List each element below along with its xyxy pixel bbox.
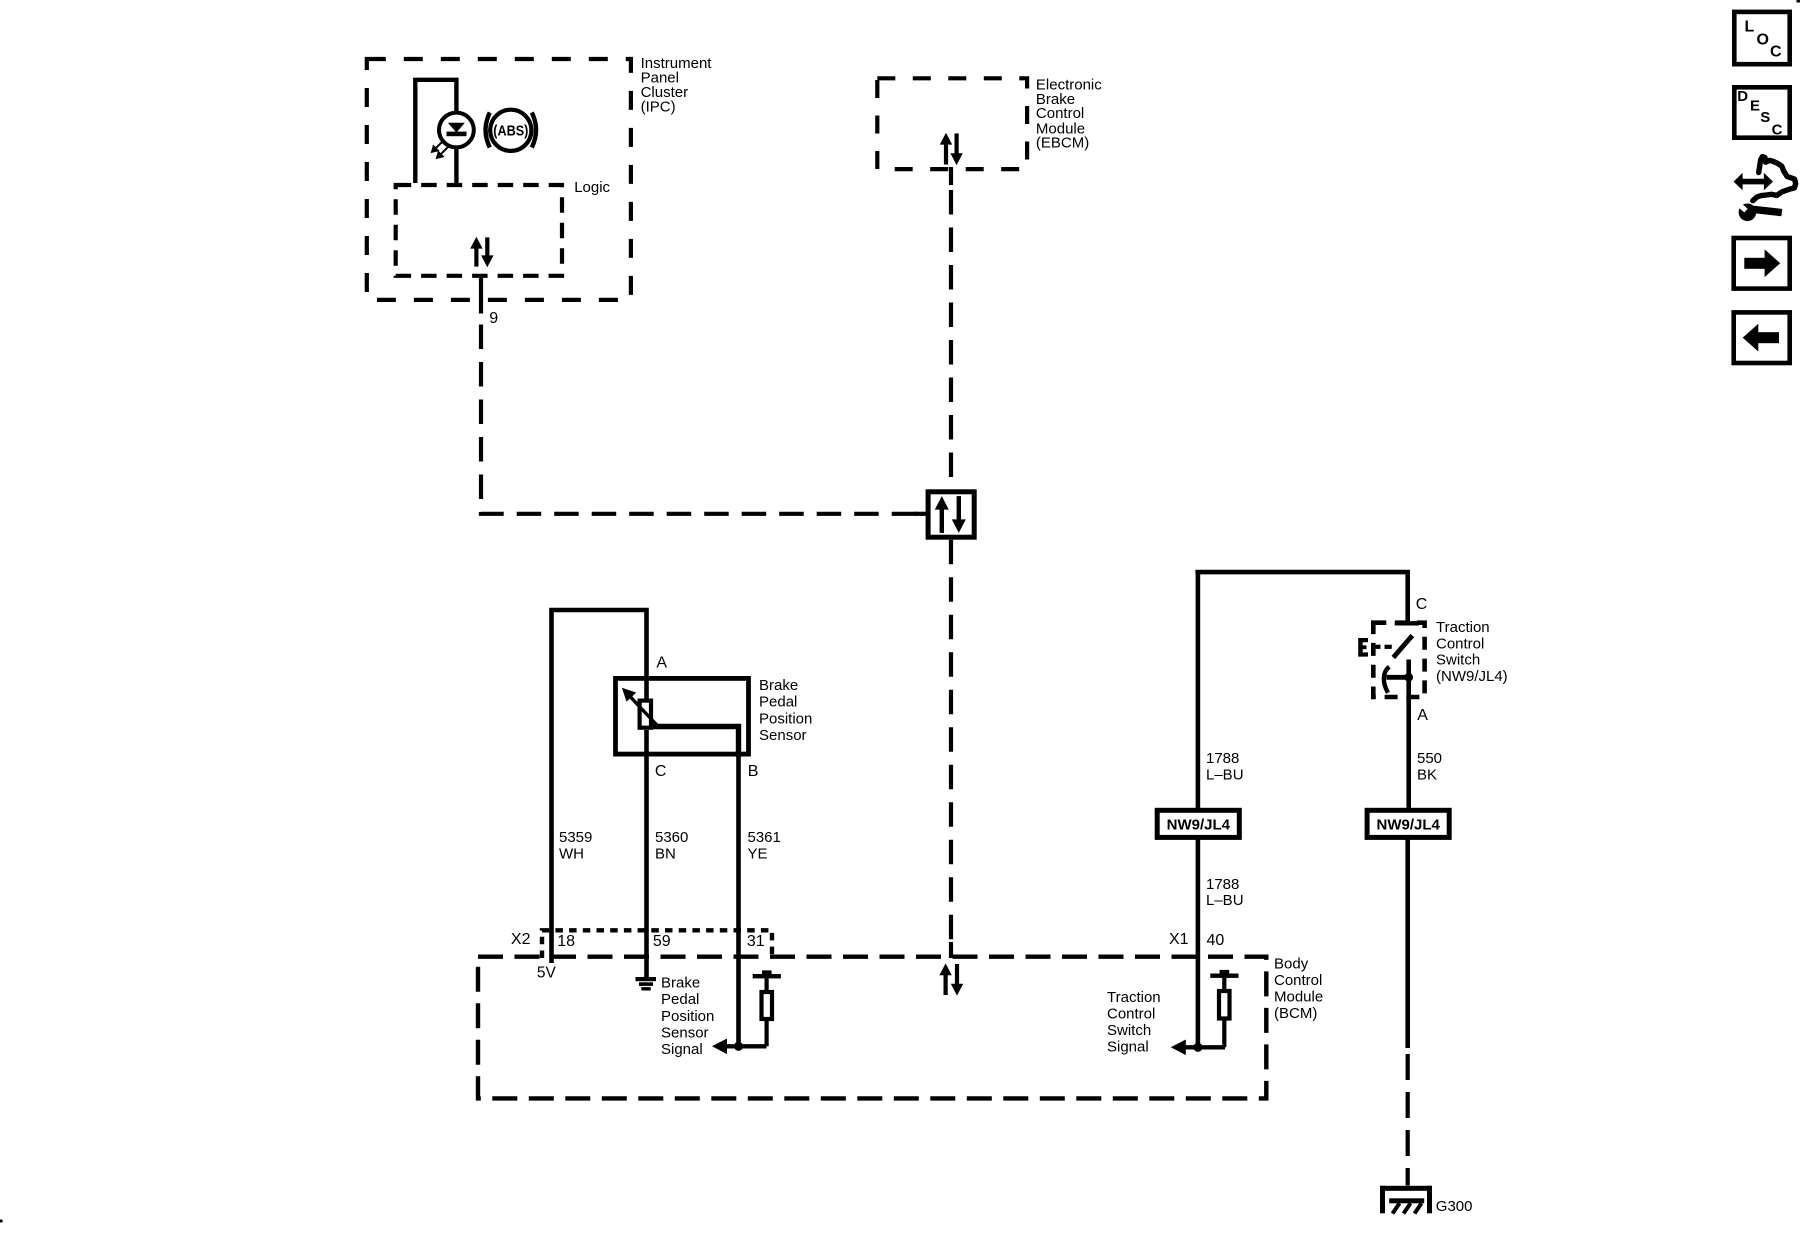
label 5359 WH bbox=[559, 829, 592, 862]
EBCM module box (dashed) bbox=[877, 78, 1027, 169]
svg-text:(EBCM): (EBCM) bbox=[1036, 135, 1089, 152]
svg-text:5360: 5360 bbox=[655, 829, 688, 846]
pull-up resistor (TCS signal) bbox=[1210, 970, 1238, 1047]
svg-text:C: C bbox=[655, 763, 667, 780]
Logic box (dashed) bbox=[396, 185, 562, 276]
svg-text:18: 18 bbox=[557, 933, 575, 950]
label 5360 BN bbox=[655, 829, 688, 862]
BCM serial pin stub bbox=[949, 942, 953, 958]
wire 1788 L-BU below connector bbox=[1196, 837, 1201, 1047]
pull-up resistor (BPP signal) bbox=[753, 970, 781, 1046]
wire 5360 BN: sensor pin C to BCM X2-59 bbox=[644, 730, 649, 977]
sidebar DESC button bbox=[1734, 87, 1789, 138]
LED indicator lamp (ABS warning) bbox=[439, 113, 474, 148]
BCM module box (Body Control Module, dashed) bbox=[478, 957, 1266, 1099]
svg-text:X2: X2 bbox=[511, 931, 531, 948]
wire 550 BK: switch pin A down bbox=[1406, 677, 1411, 808]
wire: serial junction to BCM (dashed) bbox=[949, 540, 953, 942]
svg-text:O: O bbox=[1757, 32, 1769, 49]
switch wiper bar bbox=[1386, 675, 1408, 680]
sidebar LOC button bbox=[1734, 12, 1789, 64]
svg-text:Control: Control bbox=[1274, 972, 1322, 989]
BCM label bbox=[1274, 955, 1323, 1022]
svg-text:A: A bbox=[1417, 707, 1428, 724]
svg-text:E: E bbox=[1750, 98, 1760, 115]
wire: top bus from 1788 L-BU to switch pin C bbox=[1195, 570, 1410, 575]
svg-text:Position: Position bbox=[661, 1008, 714, 1025]
pin 9 stub at IPC boundary bbox=[479, 276, 483, 314]
wire 550 BK: switch pin C drop bbox=[1405, 572, 1410, 623]
label 1788 L-BU (lower) bbox=[1206, 876, 1244, 909]
X2 connector box (dotted) bbox=[542, 930, 772, 958]
EBCM serial-data arrows bbox=[940, 133, 963, 165]
svg-text:Position: Position bbox=[759, 710, 812, 727]
serial data junction box bbox=[928, 492, 974, 537]
EBCM pin stub bbox=[949, 167, 953, 185]
svg-text:C: C bbox=[1772, 122, 1783, 139]
svg-text:Control: Control bbox=[1107, 1006, 1155, 1023]
svg-text:Signal: Signal bbox=[1107, 1039, 1149, 1056]
svg-text:Pedal: Pedal bbox=[759, 694, 797, 711]
ABS telltale symbol ((ABS)) bbox=[486, 110, 537, 151]
BPP sensor signal text bbox=[661, 974, 714, 1058]
label 1788 L-BU (upper) bbox=[1206, 750, 1244, 783]
label 550 BK bbox=[1417, 750, 1442, 783]
wire: IPC pin 9 to serial junction (dashed) bbox=[481, 325, 926, 514]
svg-text:31: 31 bbox=[747, 933, 765, 950]
svg-text:59: 59 bbox=[653, 933, 671, 950]
traction control switch signal text bbox=[1107, 989, 1161, 1055]
IPC label bbox=[641, 55, 713, 116]
potentiometer wiper arrow bbox=[622, 688, 659, 728]
scan speck left margin bbox=[0, 1220, 3, 1223]
svg-text:BK: BK bbox=[1417, 766, 1437, 783]
svg-text:5361: 5361 bbox=[748, 829, 781, 846]
svg-text:550: 550 bbox=[1417, 750, 1442, 767]
svg-text:L–BU: L–BU bbox=[1206, 892, 1244, 909]
wire 550 BK continuation (dashed) bbox=[1406, 1054, 1410, 1186]
TCS signal arrow bbox=[1171, 1040, 1186, 1056]
TCS signal line bbox=[1184, 1045, 1225, 1049]
switch lower contact bbox=[1406, 660, 1411, 678]
svg-text:Module: Module bbox=[1274, 988, 1323, 1005]
svg-text:S: S bbox=[1760, 109, 1770, 126]
svg-text:1788: 1788 bbox=[1206, 750, 1239, 767]
svg-text:Traction: Traction bbox=[1107, 989, 1161, 1006]
junction dot on wire 1788 bbox=[1193, 1043, 1202, 1052]
svg-text:G300: G300 bbox=[1436, 1198, 1473, 1215]
ground G300 bbox=[1380, 1186, 1432, 1214]
svg-text:Sensor: Sensor bbox=[661, 1025, 709, 1042]
wire 5359 WH (5V reference): BCM X2-18 up and over to sensor pin A bbox=[552, 610, 647, 963]
LED light-emission arrows bbox=[432, 141, 448, 158]
svg-text:BN: BN bbox=[655, 845, 676, 862]
ground symbol at BCM pin 59 bbox=[636, 977, 657, 991]
svg-text:Pedal: Pedal bbox=[661, 991, 699, 1008]
svg-text:L: L bbox=[1745, 19, 1755, 36]
scan speck top-right corner bbox=[1797, 0, 1800, 3]
svg-text:Sensor: Sensor bbox=[759, 727, 807, 744]
svg-text:9: 9 bbox=[489, 310, 498, 327]
NW9/JL4 inline connector (left) bbox=[1157, 810, 1239, 837]
label 5361 YE bbox=[748, 829, 781, 862]
wire 550 BK below connector (solid) bbox=[1405, 837, 1410, 1048]
sensor label bbox=[759, 677, 812, 744]
wire 5361 YE: sensor pin B to BCM X2-31 bbox=[736, 757, 741, 1046]
svg-text:5V: 5V bbox=[537, 964, 557, 981]
sidebar previous-page button bbox=[1734, 312, 1790, 363]
IPC module box (Instrument Panel Cluster, dashed) bbox=[367, 59, 631, 300]
svg-text:40: 40 bbox=[1207, 932, 1225, 949]
serial junction arrows bbox=[935, 496, 966, 533]
svg-text:C: C bbox=[1416, 596, 1428, 613]
svg-text:(NW9/JL4): (NW9/JL4) bbox=[1436, 668, 1508, 685]
svg-text:5359: 5359 bbox=[559, 829, 592, 846]
svg-text:L–BU: L–BU bbox=[1206, 766, 1244, 783]
svg-text:(BCM): (BCM) bbox=[1274, 1005, 1317, 1022]
svg-text:C: C bbox=[1770, 44, 1782, 61]
svg-text:NW9/JL4: NW9/JL4 bbox=[1167, 816, 1231, 833]
svg-text:X1: X1 bbox=[1169, 931, 1189, 948]
serial link left stub bbox=[915, 512, 929, 516]
svg-text:Switch: Switch bbox=[1107, 1022, 1151, 1039]
svg-text:A: A bbox=[656, 655, 667, 672]
potentiometer element bbox=[640, 701, 651, 728]
switch pin C contact bar bbox=[1395, 621, 1419, 625]
sidebar wiring-repair icon bbox=[1734, 157, 1796, 222]
wiper output wire to pin B bbox=[651, 727, 739, 758]
logic serial-data arrows bbox=[470, 237, 493, 267]
svg-text:D: D bbox=[1737, 88, 1748, 105]
svg-text:Traction: Traction bbox=[1436, 619, 1490, 636]
brake pedal position sensor box bbox=[616, 678, 749, 754]
svg-text:Control: Control bbox=[1436, 635, 1484, 652]
svg-text:(IPC): (IPC) bbox=[641, 99, 676, 116]
svg-text:Logic: Logic bbox=[574, 179, 610, 196]
wire: ABS lamp feed loop inside IPC bbox=[415, 80, 456, 183]
svg-text:Switch: Switch bbox=[1436, 652, 1480, 669]
svg-text:B: B bbox=[748, 763, 759, 780]
svg-text:WH: WH bbox=[559, 845, 584, 862]
sidebar next-page button bbox=[1734, 238, 1790, 289]
EBCM label bbox=[1036, 77, 1102, 152]
svg-text:1788: 1788 bbox=[1206, 876, 1239, 893]
TCS label bbox=[1436, 619, 1508, 685]
svg-text:YE: YE bbox=[748, 845, 768, 862]
traction control switch (dashed housing) bbox=[1373, 623, 1424, 697]
BPP signal arrow bbox=[712, 1039, 727, 1055]
svg-text:Brake: Brake bbox=[661, 974, 700, 991]
BCM serial-data arrows bbox=[939, 963, 963, 995]
junction dot on wire 5361 bbox=[734, 1042, 743, 1051]
switch momentary spring hook bbox=[1384, 667, 1389, 693]
BPP signal line bbox=[725, 1044, 767, 1048]
pin E dashes bbox=[1372, 645, 1392, 649]
svg-text:Brake: Brake bbox=[759, 677, 798, 694]
wire: EBCM to serial junction (dashed) bbox=[949, 190, 953, 489]
NW9/JL4 inline connector (right) bbox=[1367, 810, 1449, 837]
svg-text:Signal: Signal bbox=[661, 1041, 703, 1058]
switch pin E label bbox=[1358, 638, 1368, 657]
wire 1788 L-BU: bus down to BCM X1-40 bbox=[1196, 572, 1201, 808]
switch contact junction dot bbox=[1404, 673, 1413, 682]
svg-text:(ABS): (ABS) bbox=[493, 123, 528, 140]
svg-text:Body: Body bbox=[1274, 955, 1309, 972]
svg-text:NW9/JL4: NW9/JL4 bbox=[1377, 816, 1441, 833]
switch blade bbox=[1393, 636, 1412, 658]
